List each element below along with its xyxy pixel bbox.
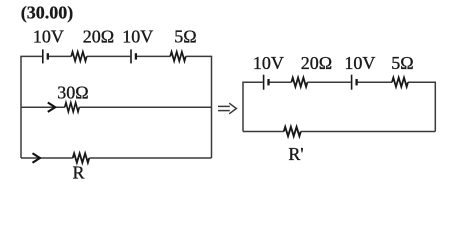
svg-text:R': R' (288, 144, 303, 164)
svg-text:10V: 10V (122, 27, 153, 47)
svg-text:10V: 10V (344, 53, 375, 73)
svg-text:5Ω: 5Ω (174, 27, 196, 47)
svg-text:10V: 10V (253, 53, 284, 73)
svg-text:5Ω: 5Ω (391, 53, 413, 73)
svg-text:20Ω: 20Ω (301, 53, 332, 73)
svg-text:10V: 10V (33, 27, 64, 47)
svg-text:(30.00): (30.00) (21, 2, 74, 23)
svg-text:20Ω: 20Ω (83, 27, 114, 47)
svg-text:30Ω: 30Ω (57, 82, 88, 102)
svg-text:R: R (72, 162, 84, 182)
